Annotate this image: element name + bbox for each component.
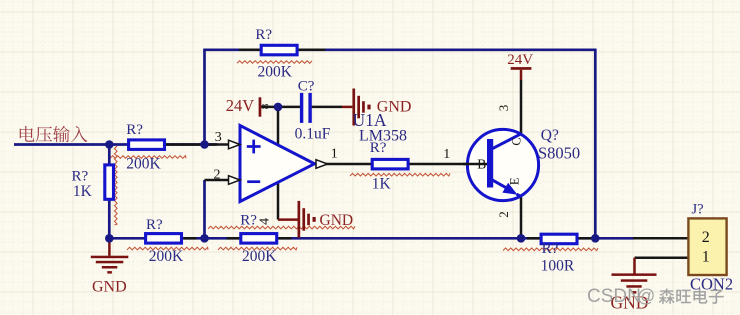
svg-text:R?: R? [72,169,89,185]
svg-text:GND: GND [320,212,354,229]
svg-text:24V: 24V [507,52,533,68]
svg-text:2: 2 [702,229,710,246]
svg-text:R?: R? [240,213,257,229]
svg-text:200K: 200K [242,248,277,265]
svg-text:LM358: LM358 [359,127,407,144]
svg-text:CSDN: CSDN [587,286,641,307]
svg-text:R?: R? [146,217,163,233]
svg-text:B: B [477,157,486,172]
svg-text:24V: 24V [226,96,255,115]
svg-text:4: 4 [258,218,273,225]
svg-text:1: 1 [331,146,338,161]
svg-text:100R: 100R [541,258,575,275]
svg-text:R?: R? [542,241,559,257]
svg-text:200K: 200K [149,248,184,265]
svg-text:C?: C? [298,78,315,94]
svg-text:1K: 1K [372,175,392,192]
svg-text:8: 8 [260,103,272,109]
svg-text:C: C [510,137,524,145]
svg-text:GND: GND [92,278,127,295]
svg-text:Q?: Q? [541,127,559,144]
svg-text:200K: 200K [258,64,293,81]
svg-text:R?: R? [255,27,272,43]
svg-text:2: 2 [496,211,511,218]
svg-text:GND: GND [377,99,412,116]
svg-text:R?: R? [126,122,143,138]
svg-text:3: 3 [496,105,511,112]
svg-text:2: 2 [214,168,221,183]
svg-text:@: @ [637,286,655,306]
svg-text:S8050: S8050 [538,144,580,163]
svg-text:1K: 1K [73,183,93,200]
svg-text:J?: J? [692,201,704,217]
svg-text:E: E [508,177,522,185]
svg-text:200K: 200K [126,156,161,173]
svg-text:0.1uF: 0.1uF [295,126,331,143]
svg-text:1: 1 [702,249,710,266]
svg-text:3: 3 [215,130,222,145]
svg-text:1: 1 [443,147,450,162]
